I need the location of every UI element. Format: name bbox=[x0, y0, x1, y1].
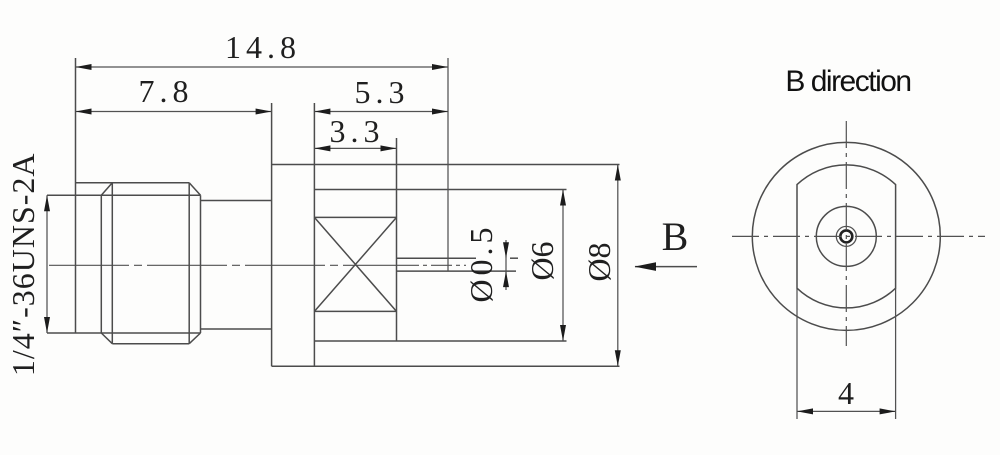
thread runout vertical left bbox=[100, 195, 102, 333]
chamfer diagonal top-right bbox=[189, 183, 200, 196]
insulator box bottom edge bbox=[314, 310, 396, 312]
svg-text:Ø6: Ø6 bbox=[524, 241, 560, 280]
svg-text:B: B bbox=[662, 214, 689, 259]
dia8 dim line vertical bbox=[617, 165, 619, 367]
thread chamfer vertical right bbox=[188, 183, 190, 344]
body divider edge (with extension up to 5.3 dim) bbox=[313, 103, 315, 366]
dim 4 dimension line bbox=[797, 410, 896, 412]
flat extension line left bbox=[796, 288, 798, 419]
B view horizontal centerline bbox=[732, 235, 985, 237]
dim 14.8 arrow right bbox=[432, 64, 448, 70]
thread minor bottom edge (with extension to left dim) bbox=[47, 332, 201, 334]
dia6 arrow bottom bbox=[560, 325, 566, 341]
middle cylinder top edge bbox=[201, 200, 272, 202]
insulator box right edge (with extension up to 3.3 dim) bbox=[396, 138, 398, 341]
svg-text:B direction: B direction bbox=[785, 65, 910, 98]
dim 7.8 arrow right bbox=[256, 109, 272, 115]
thread end face vertical right bbox=[200, 195, 202, 333]
body bottom edge (extends as extension line for dia8) bbox=[272, 365, 620, 367]
thread dim arrow bottom bbox=[44, 317, 50, 333]
svg-text:3.3: 3.3 bbox=[330, 113, 385, 149]
chamfer diagonal bottom-right bbox=[189, 333, 200, 344]
view direction arrow B line bbox=[635, 266, 697, 268]
dim 5.3 arrow right bbox=[432, 109, 448, 115]
dia6 top edge (extends as extension line for dia6) bbox=[314, 189, 566, 191]
view direction arrowhead bbox=[635, 262, 657, 271]
dim 3.3 arrow right bbox=[381, 145, 397, 151]
B view socket outer circle bbox=[836, 226, 856, 246]
dim 4 arrow left bbox=[797, 408, 813, 414]
dia8 arrow top bbox=[615, 165, 621, 181]
insulator box diagonal 2 bbox=[314, 217, 396, 311]
center pin top edge (extends as extension line for dia0.5) bbox=[397, 257, 477, 259]
body top edge (extends as extension line for dia8) bbox=[272, 164, 620, 166]
svg-text:Ø0.5: Ø0.5 bbox=[463, 223, 499, 302]
dim 7.8 dimension line bbox=[76, 111, 272, 113]
center pin bottom edge (extends as extension line for dia0.5) bbox=[397, 270, 517, 272]
dim 14.8 arrow left bbox=[76, 64, 92, 70]
dim 3.3 arrow left bbox=[314, 145, 330, 151]
thread dim line vertical bbox=[46, 195, 48, 333]
B view outer circle dia8 bbox=[752, 142, 940, 330]
dim 4 arrow right bbox=[880, 408, 896, 414]
thread dim arrow top bbox=[44, 195, 50, 211]
thread chamfer vertical left bbox=[111, 183, 113, 344]
dim 14.8 dimension line bbox=[76, 66, 449, 68]
middle cylinder bottom edge bbox=[201, 328, 272, 330]
dia0.5 arrow bottom (pointing up at pin) bbox=[503, 271, 509, 287]
thread major top edge bbox=[76, 182, 190, 184]
dim 5.3 arrow left bbox=[314, 109, 330, 115]
dim 3.3 dimension line bbox=[314, 147, 396, 149]
svg-text:7.8: 7.8 bbox=[139, 73, 194, 109]
dim 5.3 dimension line bbox=[314, 111, 448, 113]
flange left edge (with extension up to 7.8 dim) bbox=[271, 103, 273, 366]
svg-text:4: 4 bbox=[838, 375, 854, 411]
svg-text:1/4″-36UNS-2A: 1/4″-36UNS-2A bbox=[5, 152, 41, 376]
dia6 dim line vertical bbox=[562, 190, 564, 342]
chamfer diagonal top-left bbox=[101, 183, 112, 196]
dia0.5 arrow top (pointing down at pin) bbox=[503, 242, 509, 258]
B view dielectric circle bbox=[816, 206, 876, 266]
dia6 arrow top bbox=[560, 190, 566, 206]
B view socket bore circle (bold) bbox=[840, 230, 852, 242]
insulator box diagonal 1 bbox=[314, 217, 396, 311]
insulator box top edge bbox=[314, 216, 396, 218]
thread minor top edge (with extension to left dim) bbox=[47, 194, 201, 196]
dia6 bottom edge (extends as extension line for dia6) bbox=[314, 340, 566, 342]
dia8 arrow bottom bbox=[615, 350, 621, 366]
dia0.5 dim line vertical bbox=[505, 240, 507, 290]
extension line at pin tip x=448 from top dims bbox=[447, 58, 449, 271]
chamfer diagonal bottom-left bbox=[101, 333, 112, 344]
B view vertical centerline bbox=[845, 121, 847, 346]
main horizontal centerline of side view bbox=[49, 264, 398, 266]
svg-text:14.8: 14.8 bbox=[225, 29, 301, 65]
svg-text:Ø8: Ø8 bbox=[581, 242, 617, 281]
dim 7.8 arrow left bbox=[76, 109, 92, 115]
flat extension line right bbox=[895, 288, 897, 419]
thread major bottom edge bbox=[112, 343, 189, 345]
left face of connector bbox=[75, 58, 77, 333]
B view body with flats (circle r71.5 clipped by flats) bbox=[797, 165, 896, 308]
svg-text:5.3: 5.3 bbox=[355, 74, 410, 110]
